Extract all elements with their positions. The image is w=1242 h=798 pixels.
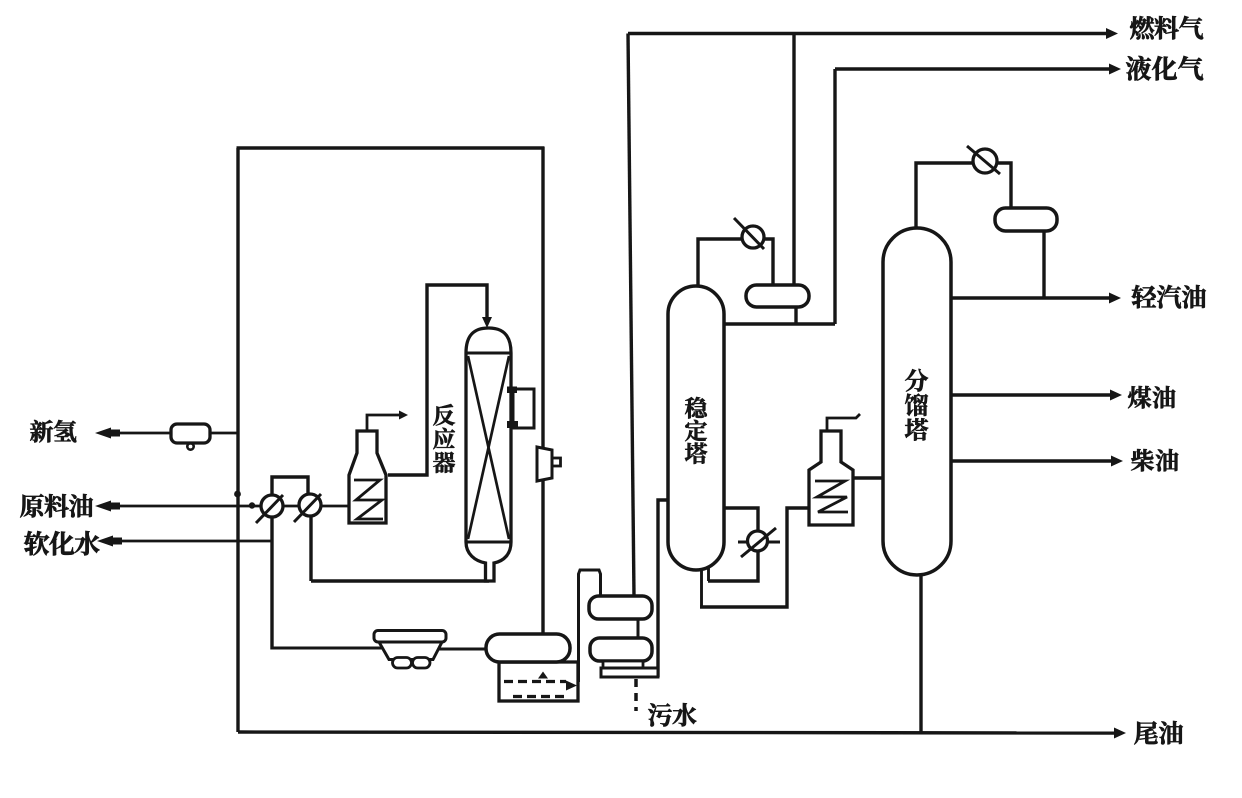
vessel: hydrogen knock-out pot: [171, 424, 210, 443]
label: diesel 柴油: [1131, 449, 1178, 471]
valve V2: fractionator overhead condenser: [967, 146, 1000, 174]
wire: reactor bottom outlet stub: [484, 560, 487, 581]
LP drum bottom collector: [601, 668, 658, 677]
label: fractionator 分馏塔: [905, 369, 928, 441]
valve V1: stabilizer overhead condenser: [734, 218, 764, 249]
reactor R1 top seam: [466, 352, 511, 355]
wire: fuel gas header line: [628, 32, 1106, 35]
boot interface dashed row 1 with arrow: [504, 680, 566, 683]
wire: HP sep boot to LP drum inverted-U transfer: [579, 570, 601, 682]
reactor R1 catalyst X lattice: [468, 356, 509, 539]
reactor R1 vessel: [466, 328, 511, 581]
air cooler: fan bumps: [393, 658, 412, 669]
wire: stabilizer bottoms to reboiler furnace: [700, 508, 809, 607]
air cooler: trapezoid body: [379, 642, 442, 660]
wire: fractionator bottoms outlet: [919, 573, 922, 732]
label: feed oil 原料油: [20, 494, 93, 518]
wire: E2 bottom to reactor effluent line: [309, 514, 312, 581]
wire: fractionator overhead line: [916, 163, 1011, 237]
vessel: LP flash drum upper: [589, 596, 652, 619]
wire: air cooler inlet line: [271, 647, 385, 650]
wire: fractionator condenser drum downcomer: [1042, 229, 1045, 298]
arrow: softened water left arrow: [97, 536, 113, 547]
wire: reflux drum bottom stub: [794, 305, 797, 324]
label: fuel gas 燃料气: [1130, 16, 1203, 40]
wire: box right edge / reactor effluent down-line to HP separator: [541, 147, 544, 641]
wire: exchanger bypass loop over E1 E2: [272, 477, 308, 497]
boot interface dashed row 2: [513, 695, 565, 698]
vessel: fractionator overhead drum: [995, 208, 1057, 231]
wire: reboiler furnace outlet to fractionator: [853, 476, 884, 479]
wire: reactor effluent horizontal line: [311, 579, 489, 582]
wire: furnace outlet riser to reactor top: [388, 285, 487, 475]
wire: LP drums interconnect: [637, 619, 640, 640]
arrow: reactor inlet arrowhead: [482, 317, 492, 328]
node: junction dot on box edge above feed crossing: [234, 491, 241, 498]
label: sour water 污水: [648, 703, 696, 726]
wire: battery-limit box left edge: [236, 148, 239, 732]
wire: stabilizer feed riser from LP drums: [658, 500, 670, 677]
wire: reflux drum top feed line from fuel gas header: [792, 34, 795, 288]
LP drum skirt step: [603, 661, 643, 668]
coil inside furnace F1: [354, 480, 383, 519]
coil inside furnace F2: [815, 481, 848, 512]
instrument bracket on effluent line: [537, 447, 552, 481]
label: reactor 反应器: [433, 404, 455, 473]
wire: fresh hydrogen line: [112, 432, 238, 435]
reactor R1 bottom seam: [466, 541, 511, 544]
label: light gasoline 轻汽油: [1132, 285, 1206, 309]
wire: stabilizer bottoms outlet stubs: [700, 556, 703, 607]
wire: softened water line: [112, 540, 273, 543]
reactor R1 side nozzle box: [513, 389, 534, 428]
wire: air cooler outlet to HP separator: [436, 648, 489, 651]
vessel: HP separator water boot: [499, 662, 578, 701]
wire: stabilizer reflux/LPG line: [722, 322, 835, 325]
label: softened water 软化水: [24, 531, 99, 555]
wire: reboiler furnace top stub: [827, 414, 860, 431]
wire: diesel product line: [950, 459, 1112, 462]
wire: furnace top vent stub with arrow: [367, 415, 402, 431]
label: fresh hydrogen 新氢: [30, 420, 76, 442]
exchanger E1: feed/effluent heat exchanger circle: [256, 495, 283, 523]
node: junction dot on feed line: [249, 502, 255, 508]
wire: battery-limit box top edge: [237, 146, 545, 149]
exchanger E2: feed/effluent heat exchanger circle: [294, 494, 321, 522]
wire: E1 bottom to air cooler header: [270, 515, 273, 650]
wire: feed oil line through exchangers to furnace: [110, 505, 352, 508]
label: LPG 液化气: [1126, 56, 1203, 81]
vessel: LP flash drum lower: [590, 638, 652, 661]
wire: stabilizer overhead line to condenser valve: [698, 239, 773, 295]
arrow: LPG arrowhead: [1109, 64, 1121, 75]
wire: kerosene product line: [950, 393, 1111, 396]
furnace F1: feed heater (bottle): [349, 431, 386, 523]
wire: bottom header line to tail oil: [238, 732, 1114, 733]
label: kerosene 煤油: [1128, 386, 1175, 409]
arrow: fuel gas arrowhead: [1106, 28, 1118, 39]
label: tail oil 尾油: [1134, 721, 1183, 745]
column T2: fractionator tower: [883, 228, 951, 575]
vessel: HP separator drum: [486, 634, 570, 662]
wire: light gasoline product line: [950, 296, 1110, 299]
wire: stabilizer bottoms valve branch: [708, 508, 758, 581]
wire: LPG product line: [835, 67, 1109, 70]
arrow: fresh hydrogen left arrow: [95, 428, 111, 439]
air cooler: top slab: [374, 631, 446, 643]
label: stabilizer 稳定塔: [685, 397, 707, 464]
arrow: feed oil left arrow: [95, 501, 111, 512]
furnace F2: stabilizer reboiler (bottle): [809, 431, 853, 525]
wire: LPG riser: [833, 69, 836, 324]
valve V3: stabilizer bottoms control valve: [738, 528, 780, 557]
column T1: stabilizer tower: [668, 286, 724, 570]
vessel: stabilizer reflux drum: [746, 285, 809, 307]
arrow: tail oil arrowhead: [1114, 728, 1126, 739]
wire: fuel gas riser from LP drum: [628, 34, 634, 597]
wire: sour water dashed line: [634, 679, 638, 711]
